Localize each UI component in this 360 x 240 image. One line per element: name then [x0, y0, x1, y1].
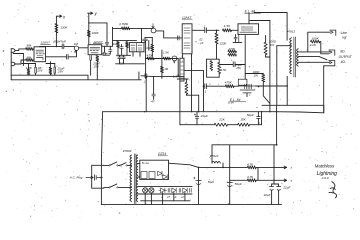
- svg-text:I: I: [3, 63, 4, 67]
- node bus1: [276, 111, 278, 113]
- capacitor V5k: [234, 36, 237, 38]
- wire 220K PI down: [216, 44, 218, 59]
- tube V5 EL84 box: [238, 24, 259, 35]
- svg-text:22µF: 22µF: [200, 114, 208, 118]
- wire OT sec top tap: [298, 51, 329, 53]
- wire B+ down main: [276, 144, 278, 146]
- resistor 10K: [238, 123, 250, 126]
- tube V2 internal cathode: [91, 52, 98, 54]
- svg-text:5v 2a: 5v 2a: [142, 161, 149, 165]
- resistor 4.7K X: [247, 166, 256, 169]
- wire interstage down: [244, 36, 246, 80]
- capacitor 50uF-1: [196, 180, 201, 182]
- B+ arrow Y: [88, 12, 93, 14]
- resistor loop left: [210, 61, 213, 71]
- jack speaker 4ohm: [330, 61, 333, 63]
- wire Rk1 top: [28, 64, 30, 69]
- capacitor hb1: [167, 188, 169, 192]
- resistor Rg2: [225, 85, 234, 88]
- capacitor 22uF: [195, 115, 199, 117]
- svg-text:1.5K: 1.5K: [25, 66, 32, 70]
- wire OT CT: [277, 45, 292, 47]
- potentiometer cut: [172, 56, 177, 61]
- wire B+ to caps: [273, 145, 275, 184]
- wire R1 to V1: [32, 48, 35, 50]
- wire bplus mid: [229, 145, 231, 205]
- fuse F1: [120, 165, 121, 166]
- transformer PT core: [133, 154, 135, 204]
- tube V2 internal plate: [90, 46, 100, 48]
- wire plate to C2: [56, 45, 62, 47]
- wire 1M tail: [161, 59, 163, 67]
- tube V1 internal cathode: [37, 58, 44, 60]
- wire mid link: [116, 63, 145, 65]
- wire fuse to PT: [127, 164, 131, 166]
- wire Rg1 to EL1: [232, 29, 239, 31]
- svg-text:1.5K: 1.5K: [221, 68, 227, 72]
- wire XY link: [257, 167, 259, 180]
- wire bus down: [145, 76, 147, 111]
- wire OT sec mid tap: [298, 56, 319, 58]
- node rowX: [273, 167, 275, 169]
- tube V5 cathode bar: [240, 31, 257, 33]
- node V1 plate: [56, 46, 58, 48]
- rectifier inner rect2: [149, 172, 155, 179]
- diode hb1: [161, 188, 165, 193]
- wire jack2 to R2: [15, 60, 25, 64]
- wire heater drop: [144, 193, 146, 205]
- svg-text:(0.047µF: (0.047µF: [53, 40, 67, 44]
- capacitor hb2: [178, 188, 180, 192]
- wire jack1 to R1: [15, 49, 25, 51]
- transformer OT secondary: [297, 49, 299, 66]
- wire trem Rv1: [117, 40, 119, 43]
- svg-text:1M: 1M: [164, 67, 169, 71]
- resistor 22K: [214, 123, 227, 126]
- wire ground bus A: [11, 74, 88, 76]
- wire trem feed: [113, 27, 154, 29]
- capacitor C6: [204, 84, 206, 89]
- svg-text:Matchless: Matchless: [315, 164, 335, 169]
- wire S2 to PT: [118, 186, 132, 188]
- wire trem caps bus: [117, 54, 131, 56]
- wire mains left: [101, 112, 102, 205]
- svg-text:100K: 100K: [92, 31, 100, 35]
- wire filt mid: [228, 124, 238, 126]
- svg-text:470K: 470K: [146, 46, 154, 50]
- wire Rs2 down: [263, 82, 270, 104]
- diode hb2: [172, 188, 176, 193]
- wire PI drop bus: [179, 112, 181, 125]
- input jack J1: [11, 49, 13, 53]
- tube V4b bars: [181, 62, 183, 78]
- resistor trem Rv1: [117, 41, 120, 47]
- wire 220K PI top: [216, 30, 218, 33]
- resistor 100K lineout: [311, 40, 320, 43]
- wire lineout box: [308, 32, 330, 52]
- resistor cathode el1: [228, 54, 236, 57]
- tube V6 cathode bar: [243, 92, 251, 94]
- wire cut left: [145, 41, 147, 79]
- wire mains top: [104, 164, 109, 166]
- svg-text:Line: Line: [341, 31, 347, 35]
- wire V1b out: [46, 56, 66, 58]
- capacitor hb3: [189, 188, 191, 192]
- resistor 1M tail: [161, 66, 164, 72]
- capacitor 25uF bias: [232, 62, 234, 67]
- switch S1: [109, 165, 110, 166]
- wire rowX right: [256, 166, 286, 168]
- capacitor trem top: [143, 38, 148, 40]
- wire trem top bus: [113, 40, 137, 42]
- resistor 1.5K cut: [163, 57, 170, 60]
- wire rowX left: [199, 166, 248, 168]
- tube V4b box: [180, 58, 184, 81]
- wire cathode bus: [22, 63, 36, 65]
- jack line out: [331, 31, 334, 33]
- svg-text:E.L.-84: E.L.-84: [230, 98, 241, 102]
- resistor PI tail: [185, 82, 188, 94]
- svg-text:50µF: 50µF: [235, 182, 242, 186]
- svg-text:.1: .1: [204, 89, 207, 93]
- wire PI tail1: [191, 54, 193, 112]
- wire choke out: [222, 163, 224, 167]
- wire PT to GZ34 a: [138, 162, 140, 164]
- wire OT sec bot tap: [298, 61, 329, 63]
- tube V6 plate bar: [238, 85, 255, 87]
- wire Rk1 bottom: [28, 74, 30, 76]
- capacitor trem C1: [118, 56, 121, 58]
- wire V1 plate up: [40, 45, 57, 47]
- wire V5 plate: [248, 13, 250, 24]
- wire OT CT down: [276, 105, 278, 145]
- svg-text:8Ω: 8Ω: [340, 50, 345, 54]
- wire PI out2: [184, 70, 204, 72]
- rectifier GZ34 box: [140, 160, 169, 179]
- svg-text:22K: 22K: [218, 118, 225, 122]
- wire cathode bus b: [46, 63, 55, 65]
- wire trem v2: [151, 41, 153, 45]
- wire Rk1b: [49, 62, 51, 67]
- node rect out: [198, 167, 200, 169]
- wire heater mid: [141, 200, 190, 202]
- svg-text:470K: 470K: [147, 53, 155, 57]
- node rowY: [273, 180, 275, 182]
- wire B+ horizontal: [212, 144, 277, 146]
- svg-text:x: x: [2, 49, 5, 53]
- wire cut mid: [161, 50, 163, 59]
- resistor 100K anode V2: [87, 30, 90, 36]
- wire gnd step: [138, 72, 140, 80]
- ac plug box: [92, 165, 104, 188]
- tube V3 divider: [135, 43, 137, 52]
- svg-text:12AX7: 12AX7: [41, 41, 51, 45]
- rectifier inner rect: [141, 172, 147, 179]
- resistor 220K PI: [215, 33, 218, 44]
- resistor Rk1 1.5K: [27, 69, 30, 75]
- node Y branch: [88, 22, 89, 23]
- transformer PT secondary: [136, 155, 138, 201]
- capacitor 32uF: [269, 186, 273, 188]
- choke box left: [211, 145, 213, 163]
- transformer PT primary: [130, 155, 132, 201]
- capacitor fil: [152, 93, 155, 95]
- wire screen2: [245, 73, 263, 75]
- wire Y branch: [89, 23, 107, 42]
- svg-text:GZ34: GZ34: [158, 152, 166, 156]
- footswitch: [103, 52, 111, 54]
- svg-text:OUTPUT: OUTPUT: [339, 55, 353, 59]
- svg-text:#7613: #7613: [287, 30, 295, 34]
- resistor tail2: [218, 62, 221, 73]
- svg-text:12AX7: 12AX7: [182, 15, 192, 19]
- capacitor C2: [61, 44, 63, 49]
- wire trem Rv1b: [126, 41, 128, 42]
- tube V1 internal plate: [36, 49, 44, 51]
- capacitor Ck2: [89, 56, 91, 61]
- svg-text:.1: .1: [143, 79, 146, 83]
- svg-text:2.2K: 2.2K: [309, 43, 317, 47]
- wire screens: [250, 20, 270, 22]
- ac plug symbol: [86, 176, 93, 178]
- tube V4b cathode bar: [177, 78, 188, 80]
- resistor trem Rv1b: [126, 42, 129, 48]
- wire PI tail2: [198, 95, 200, 112]
- wire V4 mid: [182, 54, 184, 58]
- svg-text:#7609: #7609: [123, 149, 132, 153]
- svg-text:25V: 25V: [93, 64, 100, 68]
- tube V1 12AX7 box: [34, 47, 46, 62]
- wire heater row: [138, 186, 192, 188]
- lamp pilot2: [149, 188, 154, 193]
- svg-text:#7612: #7612: [210, 154, 219, 158]
- capacitor C5: [204, 28, 206, 33]
- svg-text:A.C. Plug: A.C. Plug: [69, 175, 83, 179]
- svg-text:68k: 68k: [27, 43, 32, 47]
- wire jack down: [323, 66, 325, 113]
- tube V5 grid hatch: [242, 26, 252, 31]
- lamp pilot: [143, 188, 148, 193]
- wire rowY left: [230, 179, 248, 181]
- arrow feed X: [284, 166, 286, 169]
- wire bias loop: [207, 59, 220, 77]
- svg-text:4Ω: 4Ω: [341, 60, 346, 64]
- tube V3 12AX7 box: [129, 43, 144, 52]
- jack speaker 8ohm: [330, 51, 333, 53]
- wire fb corner: [323, 105, 325, 113]
- wire B+ Y vertical: [88, 13, 90, 44]
- svg-text:1.5K: 1.5K: [224, 24, 231, 28]
- capacitor trem1: [109, 49, 112, 51]
- resistor grid leak: [228, 50, 236, 53]
- wire C6-R: [206, 85, 225, 87]
- wire tail2: [218, 59, 220, 62]
- svg-text:1.5K: 1.5K: [173, 75, 180, 79]
- transformer OT primary: [290, 38, 292, 74]
- wire fb upper: [262, 104, 324, 106]
- svg-text:1M: 1M: [74, 42, 79, 46]
- wire C2 to pot: [64, 45, 75, 47]
- svg-text:220K: 220K: [219, 42, 228, 46]
- tube V4a bars: [184, 28, 190, 48]
- diode D2: [163, 175, 167, 179]
- tube V2 internal grid: [90, 49, 98, 51]
- node bplus: [276, 144, 278, 146]
- tube V1 internal grid: [36, 53, 45, 55]
- wire rowY right: [256, 179, 286, 181]
- node bus dots: [144, 111, 145, 112]
- wire main bus: [103, 112, 324, 113]
- svg-text:25V: 25V: [57, 69, 64, 73]
- wire filt up: [261, 112, 263, 125]
- svg-text:50µF: 50µF: [208, 180, 215, 184]
- svg-text:47: 47: [151, 100, 155, 104]
- arrow feed Y: [284, 179, 286, 182]
- svg-text:50µF: 50µF: [247, 113, 254, 117]
- tube V6 EL84 inner box: [238, 79, 247, 85]
- capacitor 22uF-b: [277, 186, 281, 188]
- wire Rk2 down: [96, 62, 98, 76]
- wire V3 down: [132, 52, 134, 56]
- resistor 470K trem: [151, 44, 154, 52]
- svg-text:25V: 25V: [36, 69, 43, 73]
- B+ arrow X: [56, 15, 61, 17]
- wire cut bus: [146, 58, 179, 60]
- wire V2 plate out: [102, 45, 113, 47]
- node cut right: [177, 74, 179, 76]
- wire trem tops: [145, 36, 152, 38]
- potentiometer volume 1M: [74, 46, 78, 50]
- wire Rg2 to EL2: [234, 85, 238, 87]
- wire Rs1 bot: [265, 55, 267, 57]
- svg-text:2-9-9: 2-9-9: [321, 176, 329, 180]
- wire C5-R: [206, 29, 219, 31]
- wire GZ34 out: [169, 163, 199, 167]
- svg-text:1M: 1M: [113, 42, 118, 46]
- capacitor PI in: [177, 36, 179, 40]
- resistor 470K cut: [147, 57, 154, 60]
- choke coil: [212, 161, 220, 163]
- wire to fuse: [118, 164, 120, 166]
- tube V6 grid hatch: [245, 84, 252, 89]
- potentiometer speed: [151, 28, 156, 33]
- resistor Rs1: [264, 42, 267, 55]
- wire bottom bus: [101, 204, 281, 206]
- wire filt row: [181, 124, 215, 126]
- resistor Rk2: [96, 56, 99, 62]
- resistor R2 68k: [26, 59, 33, 62]
- svg-text:130K: 130K: [60, 26, 68, 30]
- wire trem v1: [148, 41, 150, 51]
- tube V3 internal bars: [131, 45, 142, 50]
- capacitor trem C2: [122, 56, 125, 58]
- wire V6 plate: [256, 85, 288, 87]
- wire filt right: [250, 124, 262, 126]
- svg-text:22µF: 22µF: [282, 185, 290, 189]
- wire PI left drop: [179, 81, 181, 112]
- wire PT to GZ34 b: [138, 176, 140, 178]
- diode hb3: [183, 188, 187, 193]
- wire rect node down: [198, 167, 200, 204]
- resistor Rg1: [223, 29, 232, 32]
- svg-text:.02: .02: [199, 38, 203, 42]
- resistor 4.7K Y: [247, 179, 256, 182]
- svg-text:4.7MΩ: 4.7MΩ: [119, 22, 129, 26]
- signature: [329, 182, 337, 198]
- switch S2: [109, 187, 110, 188]
- capacitor 50uF-2: [227, 182, 232, 184]
- wire PI out top: [192, 29, 205, 31]
- resistor 4.7M: [122, 27, 130, 30]
- tube V6 bar2: [240, 89, 255, 91]
- wire ground bus B: [11, 79, 141, 81]
- wire mains bottom: [104, 186, 109, 188]
- node V6 plate: [258, 86, 260, 88]
- resistor Rs2: [262, 74, 265, 83]
- wire B+ X vertical: [55, 16, 57, 46]
- svg-text:470K: 470K: [225, 80, 233, 84]
- transformer OT core: [293, 37, 295, 77]
- svg-text:32µF: 32µF: [264, 193, 271, 197]
- wire speed to PI: [156, 31, 182, 38]
- input jack J2: [11, 62, 13, 65]
- svg-text:12AX7: 12AX7: [93, 40, 103, 44]
- wire heater row2: [138, 193, 192, 195]
- svg-text:1W: 1W: [254, 74, 259, 78]
- resistor R1 68k: [26, 48, 33, 51]
- tube V4a box: [182, 24, 192, 54]
- node grid1: [216, 30, 218, 32]
- resistor Rk1b: [49, 67, 52, 74]
- tube V2 12AX7 box: [88, 45, 102, 55]
- wire lineout drop: [320, 42, 329, 54]
- wire cut right: [177, 59, 179, 77]
- wire trem tap: [112, 27, 114, 46]
- capacitor 50uF-b: [257, 116, 261, 118]
- wire Rs1 top: [265, 36, 267, 43]
- wire PI tail top: [185, 79, 187, 82]
- resistor 130K: [55, 24, 58, 34]
- svg-text:µF: µF: [200, 41, 204, 45]
- svg-text:out: out: [342, 35, 347, 39]
- svg-text:+F: +F: [181, 195, 185, 199]
- capacitor gnd .1: [144, 74, 146, 78]
- capacitor Ck1: [34, 67, 36, 73]
- wire nfb long: [152, 75, 178, 77]
- wire jack ground left: [10, 49, 12, 80]
- diode D1: [158, 171, 162, 175]
- wire R2 to V1: [32, 59, 35, 61]
- capacitor C3: [105, 41, 108, 43]
- capacitor trem series: [120, 46, 123, 48]
- capacitor Ck1b: [53, 67, 55, 73]
